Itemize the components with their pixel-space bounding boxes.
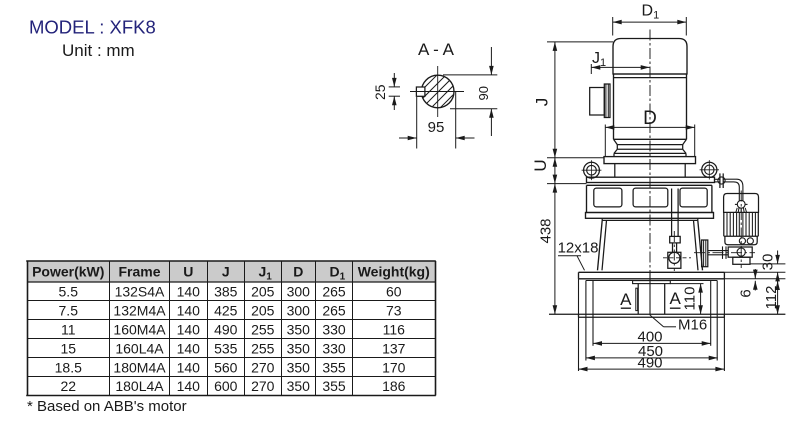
svg-text:180L4A: 180L4A [115,378,164,394]
sleeve flange [633,281,671,284]
svg-text:330: 330 [322,321,346,337]
svg-text:137: 137 [382,340,406,356]
svg-text:140: 140 [177,359,201,375]
svg-text:600: 600 [214,378,238,394]
svg-text:438: 438 [538,218,555,243]
svg-text:160M4A: 160M4A [113,321,166,337]
svg-text:A: A [620,290,632,309]
svg-text:Weight(kg): Weight(kg) [358,264,430,280]
svg-text:350: 350 [287,359,311,375]
svg-text:186: 186 [382,378,406,394]
svg-text:95: 95 [428,119,445,136]
terminal box [590,88,605,116]
dim 112 [777,281,779,314]
svg-text:385: 385 [214,284,238,300]
support bracket [614,164,616,178]
aux vertical centerline [740,191,742,269]
svg-text:205: 205 [251,303,275,319]
table [27,261,435,282]
pipe union flange [719,173,721,188]
discharge pipe [671,189,673,237]
svg-text:355: 355 [322,359,346,375]
baseplate walls / extension lines [578,279,580,371]
svg-text:A: A [670,289,682,308]
svg-text:U: U [183,264,193,280]
dim D1 [612,17,614,36]
svg-text:12x18: 12x18 [558,240,599,257]
svg-text:* Based on ABB's motor: * Based on ABB's motor [27,398,187,415]
svg-text:300: 300 [287,303,311,319]
svg-text:Power(kW): Power(kW) [32,264,104,280]
svg-text:M16: M16 [678,316,707,333]
dim 400 [593,342,711,344]
svg-text:73: 73 [386,303,402,319]
cowl seam [614,77,687,79]
motor fan cowl [613,39,687,75]
svg-text:A - A: A - A [418,40,455,59]
svg-text:160L4A: 160L4A [115,340,164,356]
svg-text:140: 140 [177,321,201,337]
dim 30 [750,263,785,265]
aux valve body [728,247,752,257]
svg-text:270: 270 [251,378,275,394]
baseplate floor line [586,280,717,282]
svg-text:110: 110 [682,287,699,311]
svg-text:18.5: 18.5 [55,359,82,375]
svg-text:J1: J1 [592,50,606,69]
valve pipe union [722,246,724,259]
svg-text:490: 490 [214,321,238,337]
pipe elbow [737,179,743,202]
dim D [604,125,606,158]
svg-text:140: 140 [177,340,201,356]
outlet vertical centerline [673,231,675,271]
motor mounting flange [604,157,696,164]
dim 490 [579,368,725,370]
svg-text:265: 265 [322,303,346,319]
svg-text:U: U [531,159,550,171]
svg-text:D: D [643,108,657,129]
outlet housing [668,252,681,268]
svg-text:22: 22 [60,378,76,394]
svg-text:MODEL : XFK8: MODEL : XFK8 [29,17,156,38]
right eyebolt [702,162,717,177]
dim 438 [554,184,556,315]
svg-text:J: J [222,264,230,280]
svg-text:7.5: 7.5 [59,303,79,319]
svg-text:180M4A: 180M4A [113,359,166,375]
aux motor cap [724,194,759,213]
pipe union nut [735,203,748,205]
svg-text:112: 112 [763,286,780,310]
union bell [736,208,747,213]
frame window 2 [633,188,668,207]
svg-text:6: 6 [738,289,755,297]
dim 6 [724,271,785,273]
svg-text:300: 300 [287,284,311,300]
dim J [547,41,613,43]
volute casing [601,218,603,220]
valve support [733,257,750,264]
bearing frame body [587,184,712,186]
svg-text:25: 25 [372,84,388,100]
svg-text:425: 425 [214,303,238,319]
flush pipe stub [715,178,720,180]
svg-text:170: 170 [382,359,406,375]
svg-text:11: 11 [61,321,76,337]
dim 450 [586,357,718,359]
svg-text:15: 15 [60,340,76,356]
svg-text:132S4A: 132S4A [115,284,165,300]
svg-text:Unit : mm: Unit : mm [62,41,135,60]
svg-text:560: 560 [214,359,238,375]
pipe flange block [670,236,681,243]
aux pump head [725,236,757,245]
shaft vertical centerline [437,66,439,117]
svg-text:330: 330 [322,340,346,356]
anchor sleeve [637,284,639,315]
svg-text:30: 30 [760,254,777,271]
frame window 1 [594,188,622,207]
svg-text:D1: D1 [642,3,660,22]
frame window 3 [680,188,707,207]
svg-text:132M4A: 132M4A [113,303,166,319]
pump top plate [587,177,715,182]
dim U [547,183,587,185]
pump side flange [702,240,708,267]
outlet horizontal centerline [663,257,691,259]
cowl joint [613,73,687,75]
anchor bolt M16 [649,272,651,315]
left eyebolt [584,162,600,178]
baseplate bottom plate [549,313,785,315]
svg-text:255: 255 [251,340,275,356]
svg-text:265: 265 [322,284,346,300]
svg-text:350: 350 [287,378,311,394]
shaft horizontal centerline [410,91,464,93]
svg-text:60: 60 [386,284,402,300]
svg-text:90: 90 [476,86,491,100]
svg-text:140: 140 [177,378,201,394]
motor lower rings [614,139,618,144]
valve horizontal centerline [694,252,755,254]
svg-text:140: 140 [177,284,201,300]
svg-text:255: 255 [251,321,275,337]
svg-text:350: 350 [287,321,311,337]
aux motor fins [723,212,725,236]
hatching [345,0,525,140]
horizontal pipe [723,178,736,180]
svg-text:140: 140 [177,303,201,319]
frame bottom band [586,213,714,219]
label M16 [650,315,663,327]
svg-text:355: 355 [322,378,346,394]
dim 25 keyway [389,86,400,88]
svg-text:D: D [293,264,303,280]
svg-text:535: 535 [214,340,238,356]
svg-text:350: 350 [287,340,311,356]
dim J1 [590,64,592,74]
pump vertical centerline [649,30,651,316]
motor body [613,74,615,139]
keyway [416,87,425,96]
svg-text:J: J [533,98,552,107]
dim 90 [443,74,497,76]
svg-text:5.5: 5.5 [59,284,79,300]
svg-text:270: 270 [251,359,275,375]
svg-text:116: 116 [383,321,406,337]
dim 110 [670,283,703,285]
svg-text:Frame: Frame [118,264,160,280]
dim 95 [416,97,418,149]
svg-text:490: 490 [637,354,662,371]
svg-text:205: 205 [251,284,275,300]
baseplate top band [579,271,725,273]
valve pipe to pump [708,250,728,252]
